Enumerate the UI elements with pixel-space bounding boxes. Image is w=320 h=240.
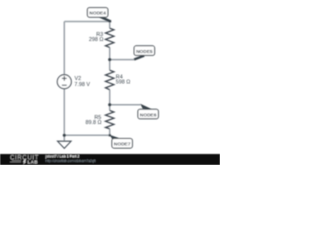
voltage source V2 minus sign (62, 84, 67, 86)
svg-text:89.8 Ω: 89.8 Ω (85, 120, 101, 126)
svg-text:NODE6: NODE6 (140, 112, 157, 118)
svg-text:LAB: LAB (28, 160, 39, 165)
footer CircuitLab logo: LAB row (10, 161, 21, 162)
svg-text:jstest7 / Lab 1 Part 2: jstest7 / Lab 1 Part 2 (45, 154, 80, 158)
svg-text:NODE4: NODE4 (89, 11, 106, 17)
wire: left vertical upper (to V2 top) (63, 22, 65, 75)
wire: bottom horizontal (64, 134, 109, 136)
junction dot at NODE6 tap (108, 103, 111, 106)
svg-text:598 Ω: 598 Ω (116, 79, 131, 85)
wire: chain between R4 and R5 (109, 90, 111, 111)
node NODE5 flag box (134, 46, 155, 56)
svg-text:http://circuitlab.com/c6dvam7a: http://circuitlab.com/c6dvam7a2qft (46, 159, 96, 163)
svg-text:7.98 V: 7.98 V (74, 82, 90, 88)
wire: left vertical lower (V2 bottom to ground node) (63, 89, 65, 136)
node NODE7 flag box (112, 139, 132, 149)
ground symbol (63, 135, 65, 141)
junction dot at NODE5 tap (108, 58, 111, 61)
wire: top horizontal from V2 branch to resistor chain (64, 21, 109, 23)
footer bar (0, 154, 220, 165)
svg-text:NODE5: NODE5 (136, 49, 153, 55)
node NODE6 flag pointer (140, 104, 153, 110)
node NODE5 flag pointer (134, 56, 144, 60)
node NODE6 flag box (138, 109, 159, 119)
wire: chain top lead (109, 22, 111, 29)
resistor R5 zigzag (106, 110, 114, 128)
node NODE4 flag pointer (99, 16, 110, 21)
resistor R4 zigzag (106, 70, 114, 90)
svg-text:NODE7: NODE7 (114, 142, 131, 148)
node NODE7 flag pointer (110, 135, 123, 140)
node NODE4 flag box (87, 8, 108, 18)
voltage source V2 circle (57, 75, 71, 89)
voltage source V2 plus sign (62, 76, 67, 81)
wire: NODE5 stub (110, 59, 135, 61)
wire: chain bottom lead (109, 129, 111, 136)
resistor R3 zigzag (106, 28, 114, 47)
wire: chain between R3 and R4 (109, 47, 111, 70)
svg-text:298 Ω: 298 Ω (89, 37, 104, 43)
wire: NODE6 stub (110, 104, 141, 106)
junction dot at ground node (63, 134, 66, 137)
